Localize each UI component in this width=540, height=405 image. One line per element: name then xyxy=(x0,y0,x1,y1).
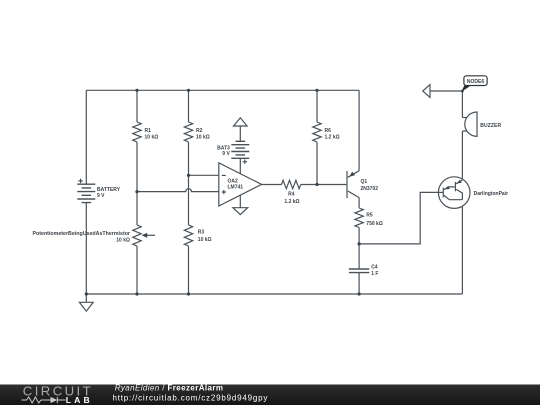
svg-text:R6: R6 xyxy=(325,128,332,134)
svg-text:1 F: 1 F xyxy=(371,271,378,277)
svg-text:RyanEldien / FreezerAlarm: RyanEldien / FreezerAlarm xyxy=(115,383,224,392)
transistor Q1 2N3702 PNP xyxy=(347,171,378,198)
svg-text:PotentiometerBeingUsedAsThermi: PotentiometerBeingUsedAsThermistor xyxy=(33,231,131,237)
svg-text:R5: R5 xyxy=(366,213,373,219)
svg-text:1.2 kΩ: 1.2 kΩ xyxy=(284,199,299,205)
resistor R6 1.2k xyxy=(313,122,340,142)
wire buzzer stub top xyxy=(462,117,468,119)
svg-text:BUZZER: BUZZER xyxy=(480,123,501,129)
svg-text:R1: R1 xyxy=(145,128,152,134)
wire R2-R3 column xyxy=(188,90,190,294)
wire bottom rail xyxy=(86,293,462,295)
svg-text:NODE6: NODE6 xyxy=(467,79,484,85)
wire op-amp output to R4 xyxy=(262,184,282,186)
CircuitLab logo xyxy=(22,383,94,404)
wire op-amp non-inverting input with hop xyxy=(137,189,219,192)
wire R5 to C4 xyxy=(358,228,360,270)
wire R4 to Q1 base xyxy=(301,184,347,186)
svg-text:2N3702: 2N3702 xyxy=(361,186,379,192)
resistor R1 10k xyxy=(133,122,158,142)
svg-text:LM741: LM741 xyxy=(228,185,244,191)
capacitor C4 1F xyxy=(349,264,379,277)
wire buzzer to darlington xyxy=(461,131,463,180)
wire node flag to buzzer corner xyxy=(430,91,462,118)
svg-text:10 kΩ: 10 kΩ xyxy=(198,237,212,243)
potentiometer used as thermistor xyxy=(33,225,156,246)
battery BATTERY 9V xyxy=(77,179,120,203)
wire op-amp inverting input xyxy=(189,174,220,176)
resistor R5 750k xyxy=(355,208,383,228)
svg-text:9 V: 9 V xyxy=(97,193,105,199)
svg-text:R3: R3 xyxy=(198,230,205,236)
ground bottom left xyxy=(85,294,87,302)
ground below op-amp xyxy=(233,208,248,215)
wire R6 column xyxy=(316,90,318,184)
svg-text:C4: C4 xyxy=(371,264,378,270)
resistor R4 1.2k horizontal xyxy=(282,180,301,205)
svg-text:10 kΩ: 10 kΩ xyxy=(116,238,130,244)
node NODE6 flag wedge xyxy=(461,86,470,93)
wire left battery column top xyxy=(85,90,87,184)
svg-text:Q1: Q1 xyxy=(361,179,368,185)
net flag arrow NODE6 xyxy=(423,85,430,98)
wire R5 junction to darlington gate xyxy=(359,192,443,244)
svg-text:750 kΩ: 750 kΩ xyxy=(366,221,383,227)
wire darlington emitter to bottom rail xyxy=(461,200,463,294)
node NODE6 label xyxy=(464,76,487,86)
wire left battery column bottom xyxy=(85,203,87,294)
resistor R2 10k xyxy=(184,122,209,142)
svg-text:10 kΩ: 10 kΩ xyxy=(196,134,210,140)
svg-text:R4: R4 xyxy=(288,192,295,198)
wire buzzer stub bottom xyxy=(462,130,468,132)
resistor R3 10k xyxy=(184,225,211,246)
svg-text:9 V: 9 V xyxy=(222,151,230,157)
svg-text:OA2: OA2 xyxy=(228,179,239,185)
wire Q1 collector to R5 xyxy=(358,198,360,208)
svg-text:1.2 kΩ: 1.2 kΩ xyxy=(325,134,340,140)
buzzer xyxy=(465,112,502,136)
svg-text:10 kΩ: 10 kΩ xyxy=(145,134,159,140)
wire C4 to bottom rail xyxy=(358,273,360,294)
svg-text:DarlingtonPair: DarlingtonPair xyxy=(474,191,509,197)
wire R1 column xyxy=(136,90,138,294)
wire top rail xyxy=(86,89,359,91)
op-amp OA2 LM741 xyxy=(219,163,262,206)
svg-text:http://circuitlab.com/cz29b9d9: http://circuitlab.com/cz29b9d949gpy xyxy=(113,393,269,402)
wire Q1 emitter to top rail xyxy=(358,90,360,171)
darlington pair U-dar xyxy=(438,177,508,209)
op-amp negative supply stub xyxy=(239,195,241,208)
svg-text:LAB: LAB xyxy=(66,395,93,405)
svg-text:R2: R2 xyxy=(196,128,203,134)
battery BAT3 9V with VCC arrow xyxy=(217,118,249,175)
